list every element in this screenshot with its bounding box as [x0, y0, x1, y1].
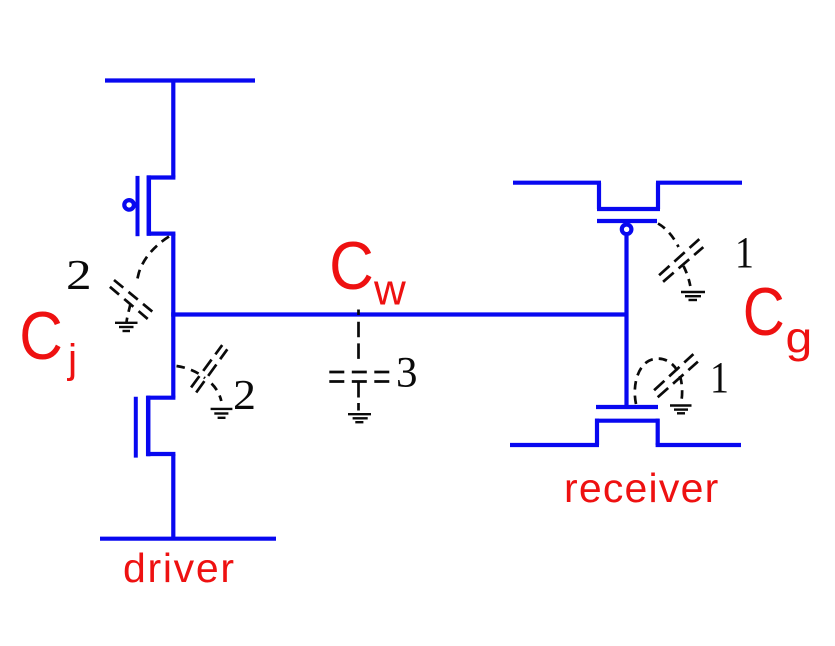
ground (Cj-top) [115, 323, 138, 331]
wire receiver gate vertical [624, 236, 628, 407]
capacitor Cj-top plates [114, 280, 154, 313]
svg-text:1: 1 [735, 228, 754, 277]
capacitor Cw plates [329, 371, 389, 374]
VDD rail (driver) [105, 78, 255, 82]
receiver top rail left [513, 181, 601, 185]
svg-text:C: C [19, 298, 63, 374]
wire output node to NMOS drain [171, 315, 175, 398]
capacitor Cg-bottom lead arc [635, 359, 682, 404]
svg-text:2: 2 [66, 253, 92, 299]
capacitor Cj-bottom lead [177, 366, 206, 378]
svg-text:1: 1 [710, 353, 729, 402]
svg-text:driver: driver [123, 545, 236, 591]
transistor M3 PMOS (receiver) [597, 183, 660, 234]
ground (Cg-top) [681, 292, 705, 300]
svg-text:g: g [786, 314, 813, 363]
ground (Cw) [348, 414, 371, 422]
capacitor Cg-top plates [659, 239, 699, 275]
wire Cw net (output to receiver gate) [171, 312, 628, 316]
transistor M1 PMOS (driver) [124, 175, 175, 236]
transistor M2 NMOS (driver) [136, 396, 176, 458]
svg-text:2: 2 [233, 373, 256, 419]
capacitor Cg-bottom plates [654, 354, 693, 390]
ground (Cg-bottom) [670, 406, 692, 414]
svg-text:C: C [329, 228, 374, 304]
receiver bottom rail left [510, 443, 599, 447]
wire VDD to PMOS drain [171, 81, 175, 178]
wire PMOS source to output node [171, 234, 175, 315]
svg-text:receiver: receiver [564, 465, 719, 511]
receiver top rail right [656, 181, 742, 185]
capacitor Cw stub and dash [357, 382, 360, 398]
ground rail (driver) [100, 537, 276, 541]
svg-text:j: j [67, 336, 77, 382]
transistor M4 NMOS (receiver) [595, 407, 659, 445]
capacitor Cg-top lead [658, 224, 679, 248]
wire NMOS source to GND rail [171, 454, 175, 539]
ground (Cj-bottom) [211, 409, 233, 418]
svg-text:C: C [743, 274, 785, 350]
receiver bottom rail right [656, 443, 741, 447]
svg-text:3: 3 [396, 350, 418, 397]
capacitor Cj-top lead [137, 237, 169, 281]
capacitor Cj-bottom plates [191, 345, 222, 387]
capacitor Cw lead [357, 310, 360, 360]
svg-text:w: w [373, 266, 406, 315]
